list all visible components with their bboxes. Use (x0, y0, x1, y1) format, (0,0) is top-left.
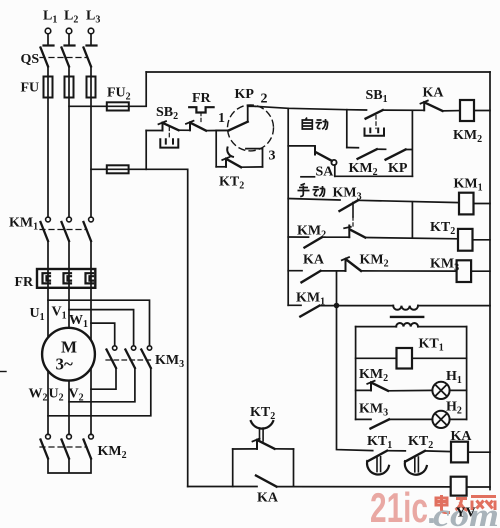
time relay coil KT2 (458, 229, 490, 251)
FR heater element 3 (86, 269, 94, 288)
wire top rung (255, 106, 460, 111)
lamp H2 (432, 411, 449, 428)
contactor coil KM1 (459, 193, 490, 215)
wire right rail (489, 72, 491, 490)
contact KT2 NC delayed bottom left (251, 421, 275, 449)
svg-text:FR: FR (192, 91, 212, 106)
svg-text:FU: FU (21, 81, 40, 96)
KM2 star linkage dashed (40, 446, 87, 448)
contactor KM2 star contact 2 (62, 434, 72, 458)
pressure switch KP (228, 105, 274, 167)
wire H2 rung (356, 418, 467, 420)
node L3 terminal (87, 28, 97, 45)
pushbutton SB1 start (365, 110, 385, 136)
wire branch bottom left (347, 147, 359, 149)
contact KM3 NO manual (340, 200, 359, 211)
contact NC with stub on KT2 rung (344, 226, 365, 238)
svg-text:KA: KA (303, 253, 325, 268)
wire SA output to branch (335, 175, 413, 177)
wire FR to node 1 (206, 129, 229, 131)
svg-text:QS: QS (21, 52, 40, 67)
motor M circle (42, 328, 95, 381)
fuse FU pole 3 (87, 77, 96, 98)
contact KT1 delayed NO bottom (367, 451, 405, 475)
node L2 terminal (65, 28, 75, 45)
time relay KT2 NC delayed contact at KP (216, 130, 262, 167)
node L1 terminal (44, 28, 54, 45)
parallel box KT2 delayed (233, 449, 294, 487)
pushbutton SB2 stop (146, 121, 178, 147)
overload relay FR NC contact (186, 107, 214, 130)
svg-text:KA: KA (451, 429, 473, 444)
transformer T secondary (396, 323, 418, 327)
wire SB2 to FR contact (179, 129, 191, 131)
wire KM3 c1 to V2 (91, 368, 116, 389)
fuse FU2 upper (107, 102, 129, 110)
solenoid coil YV (451, 477, 490, 496)
wire between KM2 and KP contacts (377, 148, 386, 150)
wire KM3 c2 to U2 (69, 368, 135, 402)
wire motor bottom U2 (68, 381, 70, 435)
contact KM1 NO self hold (300, 306, 319, 317)
selector switch SA (288, 146, 336, 177)
FR heater element 1 (43, 269, 51, 288)
contact KM2 NO on KT2 rung (305, 237, 323, 247)
wire delta tap U1 to KM3 c3 (48, 300, 150, 345)
wire manual rung (288, 199, 459, 203)
wire left rail of control network (287, 108, 289, 305)
wire lower fuse to left drop rail (129, 169, 188, 486)
FR heater element 2 (64, 269, 72, 288)
wire L2 QS to fuse (68, 67, 70, 77)
relay coil KA (451, 442, 490, 463)
lamp box top (356, 326, 467, 328)
wire feed vertical to bottom (337, 271, 373, 451)
QS linkage dashed (40, 57, 87, 59)
relay KA NC contact top rung (421, 101, 443, 111)
svg-text:FR: FR (15, 275, 35, 290)
stray mark left edge (0, 371, 6, 373)
contactor KM3 contact 1 (107, 346, 117, 368)
fuse FU pole 1 (44, 77, 53, 98)
contact KT2 delayed NO bottom (405, 451, 451, 475)
contact KA NO (302, 271, 321, 282)
wire H1 rung (356, 389, 467, 391)
svg-text:YV: YV (456, 506, 476, 521)
contact KP NO (386, 150, 406, 160)
svg-text:21ic: 21ic (370, 484, 428, 528)
wire bottom rung left (188, 486, 294, 488)
contact KM2 NC on KA rung (342, 257, 361, 271)
wire L3 QS to fuse (90, 67, 92, 77)
svg-text:KA: KA (257, 491, 279, 506)
lamp box left (355, 327, 357, 420)
wire L1 QS to fuse (47, 67, 49, 77)
wire L3 fuse to KM1 (90, 98, 92, 218)
svg-text:KP: KP (388, 161, 408, 176)
contact KM3 NO lamp rung (371, 419, 390, 428)
contactor KM2 star contact 3 (84, 434, 94, 458)
svg-text:KA: KA (423, 86, 445, 101)
svg-text:SA: SA (316, 165, 335, 180)
contactor KM1 main contact 3 (84, 217, 94, 241)
contactor KM1 main contact 2 (62, 217, 72, 241)
svg-text:2: 2 (261, 92, 268, 107)
fuse FU2 lower (107, 165, 129, 173)
wire FR to motor W1 (90, 288, 92, 340)
wire L1 fuse to KM1 (47, 98, 49, 218)
wire L2 fuse to KM1 (68, 98, 70, 218)
fuse FU pole 2 (65, 77, 74, 98)
wire FR to motor U1 (47, 288, 49, 338)
wire star point (48, 459, 91, 474)
label zidong (302, 118, 327, 130)
wire FU2 to top rail corner (129, 72, 146, 106)
wire KA rung (288, 270, 456, 272)
wire control tap from L3 to lower fuse (91, 168, 107, 170)
contact KA NO bottom (256, 476, 277, 487)
mechanical link dashes (352, 203, 354, 218)
wire control tap from L2 to FU2 (69, 105, 107, 107)
switch QS pole 1 (41, 48, 49, 67)
wire KM1 to FR (47, 241, 49, 269)
wire top rail (146, 71, 490, 73)
wire FR to motor V1 (68, 288, 70, 328)
lamp box right (466, 327, 468, 420)
svg-text:3: 3 (269, 149, 276, 164)
contact KM2 NC lamp rung (367, 381, 388, 391)
wire branch manual to KT2 rung (411, 202, 413, 238)
transformer T primary (393, 306, 418, 310)
contactor coil KM2 (460, 100, 490, 121)
contactor KM3 contact 2 (125, 346, 135, 368)
overload relay FR heater box (37, 269, 95, 288)
contact KM2 self hold NO (358, 149, 377, 159)
KM3 linkage dashed (106, 359, 152, 361)
svg-text:KP: KP (235, 87, 255, 102)
node junction dot (334, 303, 340, 309)
wire delta tap V1 to KM3 c2 (69, 310, 134, 346)
wire motor bottom W2 (47, 371, 49, 435)
wire KM3 c3 to W2 (48, 368, 151, 416)
switch QS pole 2 (62, 48, 70, 67)
contactor coil KM3 (457, 260, 490, 282)
wire delta tap W1 to KM3 c1 (91, 323, 115, 345)
switch QS pole 3 (84, 48, 92, 67)
contactor KM2 star contact 1 (41, 434, 51, 458)
wire branch right vertical (406, 110, 413, 176)
svg-text:1: 1 (218, 111, 225, 126)
wire SB2 drop to lower fuse line (145, 131, 147, 170)
watermark dianziwang (436, 495, 496, 513)
self hold branch left vertical (346, 110, 348, 148)
transformer core (391, 316, 423, 318)
wire bottom rung right (294, 486, 451, 488)
KM1 linkage dashed (40, 229, 87, 231)
time relay coil KT1 (397, 348, 413, 369)
wire KT1 coil rung (356, 357, 467, 359)
svg-text:3~: 3~ (56, 355, 74, 374)
wire motor bottom V2 (90, 369, 92, 435)
lamp H1 (432, 382, 449, 399)
wire KM1 contact rung (288, 304, 490, 306)
wire KT2 coil rung (288, 237, 458, 239)
label shoudong (298, 184, 325, 197)
contactor KM3 contact 3 (141, 346, 151, 368)
contactor KM1 main contact 1 (41, 217, 51, 241)
